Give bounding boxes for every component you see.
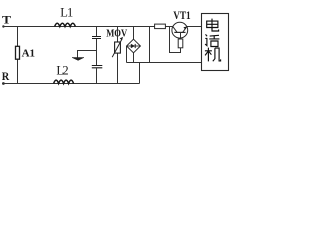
svg-text:VT1: VT1 — [173, 10, 191, 22]
wire top rail left segment — [3, 26, 173, 28]
transistor VT1 emitter — [183, 27, 187, 33]
wire bridge top lead — [133, 27, 135, 40]
capacitor C1 — [92, 37, 101, 39]
bridge diode inside — [127, 45, 141, 47]
arrester A1 — [16, 46, 20, 59]
svg-text:R: R — [2, 69, 10, 83]
wire A1 branch — [17, 27, 19, 84]
capacitor C2 — [92, 66, 103, 68]
wire capacitor branch upper lead — [96, 27, 98, 37]
varistor MOV — [115, 42, 121, 53]
node R terminal — [2, 82, 5, 85]
wire lower right rail to phone box — [127, 62, 202, 64]
inductor L1 — [55, 23, 76, 26]
wire capacitor mid lead — [96, 39, 98, 65]
transistor VT1 emitter arrow — [183, 27, 186, 30]
transistor VT1 collector — [173, 27, 177, 33]
svg-text:MOV: MOV — [106, 28, 127, 40]
svg-text:L2: L2 — [56, 64, 68, 78]
phone box — [202, 14, 229, 71]
transistor VT1 circle — [172, 22, 188, 38]
wire bridge left corner lead — [126, 46, 128, 63]
varistor MOV arrow — [112, 39, 122, 58]
svg-text:T: T — [2, 12, 11, 26]
wire feedback loop — [170, 27, 181, 53]
wire bottom rail — [3, 83, 140, 85]
wire riser from top rail to lower wire — [149, 27, 151, 63]
ground earth arrow — [72, 58, 84, 61]
resistor R2 below transistor — [178, 39, 183, 48]
label hua (话) — [205, 34, 219, 46]
label ji (机) — [205, 48, 221, 62]
wire capacitor lower lead — [96, 68, 98, 83]
wire bridge bottom lead — [133, 53, 135, 63]
wire MOV branch — [117, 27, 119, 84]
label dian (电) — [207, 19, 219, 31]
bridge rectifier U diamond — [127, 39, 141, 53]
transistor VT1 base line — [174, 31, 185, 33]
svg-text:L1: L1 — [60, 5, 73, 19]
node T terminal — [2, 25, 4, 27]
resistor R1 on rail — [155, 24, 166, 29]
wire bottom step vertical — [139, 63, 141, 84]
wire base lead down — [180, 32, 182, 39]
inductor L2 — [54, 80, 74, 83]
wire top rail right segment — [187, 26, 202, 28]
wire ground branch — [78, 51, 97, 59]
svg-text:A 1: A 1 — [22, 48, 35, 60]
